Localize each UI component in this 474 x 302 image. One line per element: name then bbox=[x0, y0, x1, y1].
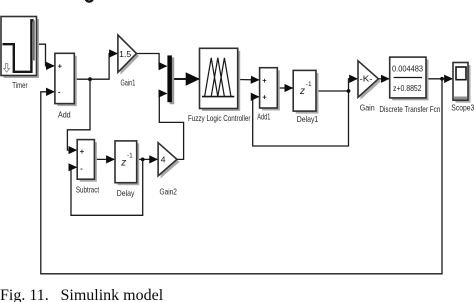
svg-text:+: + bbox=[262, 93, 267, 102]
svg-text:Add: Add bbox=[58, 111, 71, 120]
wire: Add1 output to Delay1 bbox=[277, 87, 292, 89]
svg-text:1.5: 1.5 bbox=[119, 49, 131, 59]
wire: Timer to Add plus input bbox=[37, 44, 55, 66]
wire: Delay output to Gain2 bbox=[137, 158, 158, 160]
block Gain1 (1.5) bbox=[118, 35, 139, 88]
block Fuzzy Logic Controller bbox=[188, 48, 251, 123]
svg-text:-1: -1 bbox=[306, 81, 312, 88]
wire: Subtract output to Delay bbox=[94, 158, 114, 160]
wire: Delay output feedback to Subtract minus input bbox=[71, 159, 143, 215]
block Add1 (sum) bbox=[257, 68, 280, 122]
wire: Delay1 output to Gain bbox=[316, 79, 357, 91]
wire: Add output tap down to Subtract plus input bbox=[67, 79, 90, 150]
svg-text:z: z bbox=[299, 86, 305, 97]
svg-text:Gain1: Gain1 bbox=[121, 79, 136, 88]
wire: main feedback loop (plant output to Add minus input) bbox=[41, 79, 442, 274]
svg-text:Gain2: Gain2 bbox=[160, 188, 178, 197]
wire: Gain2 output up to Mux input 2 bbox=[159, 94, 183, 160]
wire: Gain1 output to Mux input 1 bbox=[137, 54, 167, 67]
wire: Delay1 output feedback to Add1 second input bbox=[253, 91, 349, 146]
block Scope3 bbox=[451, 63, 474, 113]
block Add (sum) bbox=[55, 53, 77, 119]
block Delay (z^-1) bbox=[115, 141, 139, 198]
node: junction on Delay output bbox=[141, 158, 145, 162]
wire: Gain output to Discrete Transfer Fcn bbox=[378, 78, 389, 80]
svg-text:Fig. 11.Simulink model: Fig. 11.Simulink model bbox=[0, 287, 164, 302]
node: junction on Delay1 output bbox=[347, 89, 351, 93]
svg-text:0.004483: 0.004483 bbox=[392, 65, 423, 74]
svg-text:Add1: Add1 bbox=[257, 113, 270, 122]
block Discrete Transfer Fcn bbox=[379, 57, 440, 114]
block Delay1 (z^-1) bbox=[293, 70, 318, 123]
svg-text:-K-: -K- bbox=[360, 74, 373, 84]
svg-text:Gain: Gain bbox=[360, 104, 375, 113]
svg-text:4: 4 bbox=[161, 155, 166, 165]
svg-text:Discrete Transfer Fcn: Discrete Transfer Fcn bbox=[379, 105, 440, 114]
svg-text:+: + bbox=[58, 62, 63, 71]
svg-text:+: + bbox=[262, 76, 267, 85]
svg-text:Delay1: Delay1 bbox=[297, 115, 319, 124]
block Subtract (sum) bbox=[76, 140, 100, 195]
wire: Add output to Gain1 bbox=[74, 54, 117, 80]
svg-text:Subtract: Subtract bbox=[76, 185, 100, 194]
node: junction on plant output bbox=[440, 77, 444, 81]
block Timer bbox=[1, 17, 39, 91]
svg-text:-1: -1 bbox=[127, 153, 133, 160]
mux bbox=[167, 55, 174, 104]
svg-text:+: + bbox=[80, 147, 85, 156]
svg-text:z+0.8852: z+0.8852 bbox=[393, 84, 422, 93]
svg-text:Fuzzy Logic Controller: Fuzzy Logic Controller bbox=[188, 114, 251, 123]
svg-text:Delay: Delay bbox=[117, 189, 135, 198]
block Gain (-K-) bbox=[358, 61, 381, 113]
wire: Mux output to Fuzzy Logic Controller bbox=[172, 78, 199, 80]
block Gain2 (4) bbox=[158, 143, 179, 197]
top cut-off letter g fragment bbox=[85, 0, 93, 2]
wire: Fuzzy Logic Controller output to Add1 bbox=[238, 79, 259, 81]
svg-text:z: z bbox=[120, 158, 126, 169]
node: junction on Add output bbox=[88, 77, 92, 81]
svg-text:Timer: Timer bbox=[12, 81, 27, 90]
wire: Discrete Transfer Fcn output to Scope3 bbox=[426, 78, 452, 80]
svg-text:Scope3: Scope3 bbox=[451, 104, 474, 113]
